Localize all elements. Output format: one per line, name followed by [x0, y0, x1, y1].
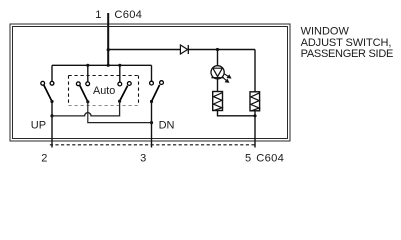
- svg-text:WINDOW: WINDOW: [301, 26, 350, 38]
- svg-text:3: 3: [140, 153, 146, 165]
- wire: stub bus to right outer contact: [151, 65, 153, 81]
- resistor R1: [213, 92, 223, 111]
- switch SW3 lever: [120, 86, 128, 102]
- component name text: [301, 26, 393, 61]
- svg-text:1: 1: [95, 9, 101, 21]
- node: bus junction left-inner: [86, 64, 89, 67]
- svg-text:UP: UP: [31, 119, 46, 131]
- svg-text:PASSENGER SIDE: PASSENGER SIDE: [301, 48, 393, 60]
- node: DN junction: [150, 121, 153, 124]
- wire: stub bus to left inner contact: [87, 65, 89, 82]
- node: bus junction feed: [107, 64, 110, 67]
- wire: R1 bottom to join: [218, 111, 256, 116]
- switch SW2 pivot: [86, 100, 89, 103]
- node: junction pin1 wire / diode branch: [107, 48, 110, 51]
- svg-text:ADJUST SWITCH,: ADJUST SWITCH,: [301, 37, 392, 49]
- switch SW1 lever: [44, 85, 52, 101]
- switch SW2 (Auto left inner): contacts: [76, 82, 89, 86]
- pin 1 wire: [107, 13, 109, 65]
- switch SW2 lever: [80, 86, 88, 102]
- switch SW3 (Auto right inner): contacts: [118, 82, 131, 86]
- wire: right branch down from top corner: [254, 50, 256, 92]
- wire: UP output: [51, 102, 53, 148]
- svg-text:C604: C604: [114, 9, 142, 21]
- node: bus junction right-inner: [118, 64, 121, 67]
- svg-text:DN: DN: [159, 119, 175, 131]
- wire: DN output: [151, 102, 153, 148]
- wire: stub bus to left outer contact: [51, 65, 53, 81]
- switch SW4 (DN, right outer): contacts: [150, 81, 164, 85]
- resistor R2: [250, 92, 260, 111]
- switch SW4 lever: [152, 85, 160, 102]
- switch SW1 pivot: [50, 100, 53, 103]
- svg-text:2: 2: [41, 153, 47, 165]
- wire: pin 5 output: [254, 111, 256, 148]
- LED branch wire (top): [217, 50, 219, 66]
- node: UP junction: [50, 114, 53, 117]
- Auto function dashed box: [69, 76, 139, 106]
- switch SW3 pivot: [118, 100, 121, 103]
- wire: top feed to diode branch: [108, 49, 255, 51]
- LED branch wire (bottom): [217, 79, 219, 92]
- connector C604 dashed line: [50, 144, 256, 146]
- diode D1: [180, 45, 188, 54]
- LED L1: [211, 66, 224, 79]
- wire: linkage UP junction to right inner pivot (with hop): [52, 101, 120, 116]
- node: branch join: [253, 114, 256, 117]
- LED emission arrows: [223, 74, 230, 82]
- wire: stub bus to right inner contact: [119, 65, 121, 82]
- svg-text:C604: C604: [256, 153, 284, 165]
- svg-text:5: 5: [245, 153, 251, 165]
- wire: switch common bus: [52, 64, 152, 66]
- svg-text:Auto: Auto: [93, 85, 115, 97]
- switch housing outline (double border): [10, 24, 290, 141]
- switch SW4 pivot: [150, 100, 153, 103]
- switch SW1 (UP, left outer): contacts: [41, 81, 54, 85]
- wire: linkage left inner pivot to DN junction: [88, 102, 152, 123]
- node: junction LED branch: [216, 48, 219, 51]
